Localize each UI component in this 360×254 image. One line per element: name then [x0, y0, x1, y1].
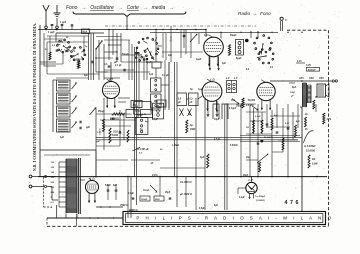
svg-text:1MΩ: 1MΩ	[190, 128, 195, 131]
svg-text:L.C.: L.C.	[204, 33, 209, 37]
svg-text:8µF: 8µF	[292, 86, 297, 89]
svg-text:0,5M: 0,5M	[312, 163, 317, 166]
svg-text:10µF: 10µF	[214, 119, 220, 121]
svg-text:6µF: 6µF	[214, 205, 219, 207]
svg-text:L.F: L.F	[226, 77, 230, 80]
svg-text:Fono → Oscillatore → Corte → m: Fono → Oscillatore → Corte → media →	[66, 5, 174, 11]
svg-text:1µF: 1µF	[149, 73, 154, 76]
svg-text:4 7 6: 4 7 6	[285, 200, 300, 206]
svg-text:3.E: 3.E	[159, 104, 163, 106]
svg-text:0,1µF: 0,1µF	[255, 116, 261, 118]
svg-text:1µF: 1µF	[60, 137, 65, 139]
svg-text:1µµF: 1µµF	[196, 59, 202, 61]
svg-text:4,25: 4,25	[306, 64, 311, 67]
svg-text:1,5MΩ: 1,5MΩ	[172, 145, 179, 147]
svg-text:6Ω: 6Ω	[135, 111, 138, 113]
svg-text:AP2: AP2	[309, 77, 314, 80]
svg-text:50.000: 50.000	[100, 128, 102, 135]
svg-text:0,1µF: 0,1µF	[239, 197, 246, 199]
svg-text:3-30: 3-30	[110, 119, 115, 121]
svg-text:50µµF: 50µµF	[230, 35, 237, 37]
svg-text:m 0.005 µF: m 0.005 µF	[137, 149, 149, 151]
svg-text:1000: 1000	[290, 92, 296, 94]
svg-text:50µµF: 50µµF	[122, 54, 129, 56]
svg-text:3µF: 3µF	[222, 63, 227, 65]
svg-text:510Ω: 510Ω	[112, 134, 118, 137]
svg-text:6µµF: 6µµF	[236, 57, 242, 60]
svg-text:1500Ω: 1500Ω	[141, 199, 148, 201]
svg-text:AP1: AP1	[299, 77, 304, 80]
svg-text:1 µµF: 1 µµF	[60, 21, 67, 24]
svg-text:L.P: L.P	[249, 178, 253, 182]
svg-text:1Ω: 1Ω	[246, 127, 249, 129]
svg-text:510 Ω: 510 Ω	[113, 130, 121, 134]
svg-text:24,5v: 24,5v	[152, 174, 158, 177]
svg-text:L.D.: L.D.	[90, 176, 96, 180]
svg-text:6µF: 6µF	[84, 75, 89, 77]
svg-text:L.D.: L.D.	[210, 77, 216, 81]
svg-text:25µF: 25µF	[165, 192, 171, 194]
svg-text:P H I L I P S - R A D I O S: P H I L I P S - R A D I O S A I - M I L …	[136, 216, 333, 221]
svg-text:P: P	[285, 18, 287, 22]
svg-text:170Ω: 170Ω	[137, 115, 143, 117]
svg-text:(1.500Ω): (1.500Ω)	[256, 200, 265, 202]
svg-text:0,5µF: 0,5µF	[199, 208, 206, 210]
svg-text:µF 1500 Ω: µF 1500 Ω	[179, 193, 192, 196]
svg-text:2µF: 2µF	[168, 55, 173, 57]
svg-text:25µµF: 25µµF	[98, 111, 105, 113]
svg-text:1µµ: 1µµ	[198, 88, 203, 91]
svg-text:G.B.W: G.B.W	[73, 59, 81, 62]
svg-text:20µ: 20µ	[246, 157, 251, 159]
svg-text:20µF: 20µF	[243, 175, 249, 177]
svg-text:7500 Ω: 7500 Ω	[120, 204, 128, 207]
svg-text:3µF: 3µF	[200, 156, 205, 159]
svg-text:5.000Ω: 5.000Ω	[230, 145, 238, 147]
svg-text:L.F: L.F	[234, 77, 238, 80]
svg-text:0,1 µF: 0,1 µF	[115, 65, 122, 67]
svg-text:8000µF: 8000µF	[308, 69, 316, 71]
svg-text:4µF: 4µF	[274, 114, 278, 117]
svg-text:4,15: 4,15	[297, 60, 302, 63]
svg-text:m: m	[300, 107, 302, 109]
svg-text:15.000Ω: 15.000Ω	[306, 150, 315, 153]
svg-text:N.B. I COMMUTATORI SONO VISTI: N.B. I COMMUTATORI SONO VISTI DA SOTTO I…	[33, 23, 37, 171]
svg-text:µµF: µµF	[96, 141, 101, 143]
svg-text:Tono: Tono	[143, 189, 149, 192]
svg-text:m 0.005µF: m 0.005µF	[304, 145, 316, 148]
svg-text:1 µµF: 1 µµF	[48, 30, 55, 34]
svg-text:µµF: µµF	[86, 127, 91, 129]
svg-text:8µF: 8µF	[113, 184, 118, 187]
svg-text:0,5µF: 0,5µF	[214, 139, 221, 141]
svg-text:AP3: AP3	[319, 77, 324, 80]
svg-text:Tm.500µF: Tm.500µF	[255, 196, 266, 198]
svg-text:50.000: 50.000	[248, 100, 256, 102]
svg-text:2Ω: 2Ω	[312, 158, 315, 161]
svg-text:0,1 µF: 0,1 µF	[162, 74, 169, 77]
